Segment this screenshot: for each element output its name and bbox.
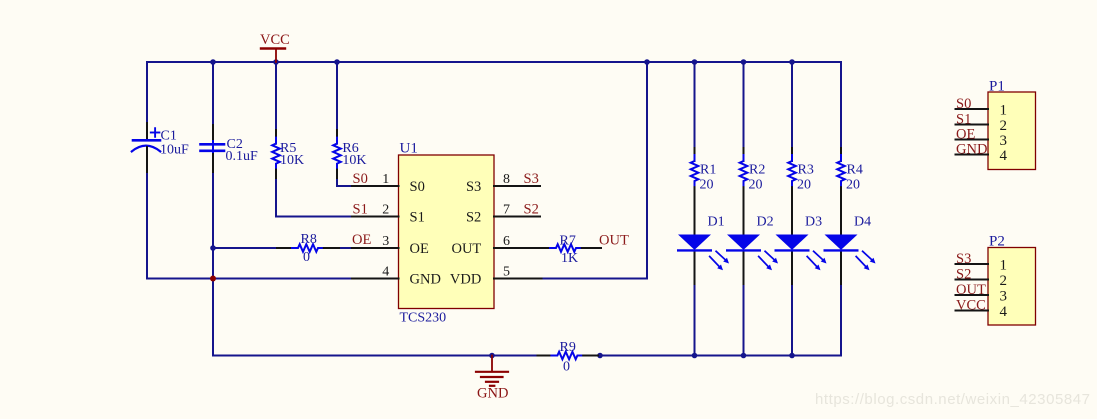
wire C2 column top bbox=[212, 62, 214, 126]
U1 pin 8 S3 bbox=[466, 172, 540, 195]
U1 pin 3 OE bbox=[352, 234, 429, 257]
U1 pin 5 VDD bbox=[450, 265, 542, 288]
wire D2 branch bottom bbox=[743, 284, 745, 356]
svg-text:S3: S3 bbox=[466, 179, 481, 195]
resistor R3 bbox=[788, 148, 814, 235]
P1 pin 3 bbox=[956, 133, 1008, 149]
svg-text:6: 6 bbox=[503, 234, 510, 249]
svg-text:0: 0 bbox=[303, 250, 310, 265]
svg-text:R3: R3 bbox=[798, 163, 814, 178]
wire D4 branch bottom bbox=[840, 284, 842, 356]
junction on top rail at R5/VCC bbox=[273, 59, 279, 65]
wire D2 branch top bbox=[743, 62, 745, 148]
junction on bottom rail at GND bbox=[489, 353, 495, 359]
svg-text:4: 4 bbox=[1000, 304, 1008, 320]
junction on bottom rail at D1 bbox=[692, 353, 698, 359]
svg-text:10K: 10K bbox=[342, 153, 366, 168]
svg-text:R8: R8 bbox=[301, 232, 317, 247]
resistor R6 bbox=[333, 130, 366, 178]
wire D1 branch top bbox=[694, 62, 696, 148]
svg-text:D3: D3 bbox=[805, 215, 822, 230]
svg-text:S3: S3 bbox=[524, 171, 539, 187]
junction on top rail at C2 bbox=[210, 59, 216, 65]
svg-text:OUT: OUT bbox=[956, 282, 986, 298]
svg-text:10K: 10K bbox=[280, 153, 304, 168]
capacitor C2 bbox=[201, 125, 259, 172]
svg-text:S1: S1 bbox=[410, 209, 425, 225]
svg-text:D1: D1 bbox=[708, 215, 725, 230]
svg-text:S0: S0 bbox=[956, 96, 971, 112]
U1 pin 4 GND bbox=[352, 265, 441, 288]
svg-text:S0: S0 bbox=[353, 171, 368, 187]
wire R6 bottom to S0 pin line bbox=[337, 178, 352, 186]
op-amp U1 TCS230 body bbox=[399, 141, 495, 326]
connector P2 body bbox=[988, 234, 1036, 326]
svg-text:C1: C1 bbox=[161, 129, 177, 144]
wire D3 branch bottom bbox=[791, 284, 793, 356]
wire R5 bottom to S1 pin line bbox=[276, 178, 352, 217]
wire D4 branch top bbox=[840, 62, 842, 148]
P2 pin 4 bbox=[956, 304, 1008, 320]
svg-text:OUT: OUT bbox=[599, 233, 629, 249]
P2 pin 2 bbox=[956, 273, 1008, 289]
svg-text:S2: S2 bbox=[524, 202, 539, 218]
LED D3 bbox=[776, 215, 827, 285]
LED D4 bbox=[825, 215, 876, 285]
wire D1 branch bottom bbox=[694, 284, 696, 356]
resistor R1 bbox=[691, 148, 717, 235]
svg-text:S1: S1 bbox=[956, 112, 971, 128]
P2 pin 1 bbox=[956, 258, 1008, 274]
wire bottom ground rail left of R9 bbox=[213, 355, 538, 357]
svg-text:S2: S2 bbox=[956, 267, 971, 283]
svg-text:GND: GND bbox=[410, 271, 441, 287]
ground GND symbol bbox=[476, 356, 508, 402]
svg-text:R2: R2 bbox=[749, 163, 765, 178]
wire U1 pin5 to VDD riser bbox=[542, 62, 648, 279]
resistor R4 bbox=[837, 148, 863, 235]
svg-text:VCC: VCC bbox=[956, 298, 986, 314]
junction on bottom rail at D3 bbox=[789, 353, 795, 359]
resistor R7 bbox=[550, 234, 601, 267]
resistor R2 bbox=[740, 148, 766, 235]
svg-text:1: 1 bbox=[1000, 103, 1008, 119]
svg-text:20: 20 bbox=[749, 178, 763, 193]
capacitor C1 bbox=[132, 123, 189, 172]
junction on top rail at D2 bbox=[741, 59, 747, 65]
svg-text:4: 4 bbox=[382, 265, 389, 280]
svg-text:D2: D2 bbox=[757, 215, 774, 230]
svg-text:S0: S0 bbox=[410, 179, 425, 195]
U1 pin 6 OUT with resistor R7 bbox=[451, 234, 554, 257]
svg-text:TCS230: TCS230 bbox=[400, 311, 447, 326]
svg-text:R1: R1 bbox=[700, 163, 716, 178]
P2 pin 3 bbox=[956, 289, 1008, 305]
svg-text:P2: P2 bbox=[989, 234, 1005, 250]
svg-text:U1: U1 bbox=[400, 141, 418, 157]
wire R8 to U1 pin3 bbox=[339, 247, 352, 249]
LED D1 bbox=[678, 215, 729, 285]
svg-text:VCC: VCC bbox=[260, 32, 290, 48]
P1 pin 1 bbox=[956, 103, 1008, 119]
svg-text:20: 20 bbox=[797, 178, 811, 193]
svg-text:1K: 1K bbox=[561, 251, 578, 266]
wire OE segment from node to R8 bbox=[213, 247, 277, 249]
svg-text:GND: GND bbox=[477, 385, 508, 401]
wire GND line from node to U1 pin4 bbox=[213, 278, 352, 280]
svg-text:3: 3 bbox=[1000, 289, 1008, 305]
svg-text:OE: OE bbox=[410, 241, 429, 257]
svg-text:10uF: 10uF bbox=[160, 143, 189, 158]
junction on top rail at D3 bbox=[789, 59, 795, 65]
svg-text:OE: OE bbox=[352, 232, 371, 248]
svg-text:S2: S2 bbox=[466, 209, 481, 225]
svg-text:R7: R7 bbox=[560, 234, 576, 249]
junction on top rail at D1 bbox=[692, 59, 698, 65]
svg-text:4: 4 bbox=[1000, 148, 1008, 164]
junction on bottom rail right of R9 bbox=[597, 353, 603, 359]
U1 pin 2 S1 bbox=[352, 203, 425, 226]
svg-text:P1: P1 bbox=[989, 79, 1005, 95]
svg-text:0.1uF: 0.1uF bbox=[226, 149, 259, 164]
VCC power symbol bbox=[260, 32, 290, 62]
U1 pin 1 S0 bbox=[352, 172, 425, 195]
svg-text:20: 20 bbox=[700, 178, 714, 193]
svg-text:R9: R9 bbox=[560, 340, 576, 355]
svg-text:0: 0 bbox=[563, 360, 570, 375]
junction on top rail at VDD riser bbox=[644, 59, 650, 65]
junction on bottom rail at D2 bbox=[741, 353, 747, 359]
junction on top rail at R6 bbox=[334, 59, 340, 65]
svg-text:S3: S3 bbox=[956, 251, 971, 267]
resistor R5 bbox=[272, 130, 304, 178]
svg-text:OUT: OUT bbox=[451, 241, 481, 257]
wire R5 column from rail bbox=[275, 62, 277, 130]
svg-text:3: 3 bbox=[382, 234, 389, 249]
svg-text:S1: S1 bbox=[353, 202, 368, 218]
svg-text:1: 1 bbox=[382, 172, 389, 187]
junction node on OE line bbox=[210, 245, 216, 251]
junction node red 4-way bbox=[210, 276, 216, 282]
svg-text:D4: D4 bbox=[854, 215, 871, 230]
wire R6 column from rail bbox=[336, 62, 338, 130]
svg-text:2: 2 bbox=[1000, 118, 1008, 134]
LED D2 bbox=[727, 215, 778, 285]
svg-text:1: 1 bbox=[1000, 258, 1008, 274]
U1 pin 7 S2 bbox=[466, 203, 540, 226]
svg-text:20: 20 bbox=[846, 178, 860, 193]
P1 pin 2 bbox=[956, 118, 1008, 134]
svg-text:2: 2 bbox=[1000, 273, 1008, 289]
wire top power rail bbox=[147, 61, 841, 63]
connector P1 body bbox=[988, 79, 1036, 170]
wire left drop from top rail to C1 bbox=[146, 62, 148, 124]
svg-text:OE: OE bbox=[956, 127, 975, 143]
svg-text:VDD: VDD bbox=[450, 271, 481, 287]
wire C1 bottom to corner and across to node bbox=[147, 171, 213, 279]
wire D3 branch top bbox=[791, 62, 793, 148]
svg-text:8: 8 bbox=[503, 172, 510, 187]
svg-text:R4: R4 bbox=[847, 163, 863, 178]
P1 pin 4 bbox=[956, 148, 1008, 164]
wire C2 column bottom down to bottom rail bbox=[212, 171, 214, 356]
svg-text:7: 7 bbox=[503, 203, 510, 218]
wire bottom ground rail right of R9 bbox=[598, 355, 841, 357]
svg-text:3: 3 bbox=[1000, 133, 1008, 149]
svg-text:GND: GND bbox=[956, 142, 987, 158]
svg-text:https://blog.csdn.net/weixin_4: https://blog.csdn.net/weixin_42305847 bbox=[815, 391, 1091, 408]
resistor R9 bbox=[538, 340, 599, 375]
svg-text:5: 5 bbox=[503, 265, 510, 280]
svg-text:2: 2 bbox=[382, 203, 389, 218]
resistor R8 bbox=[277, 232, 339, 265]
